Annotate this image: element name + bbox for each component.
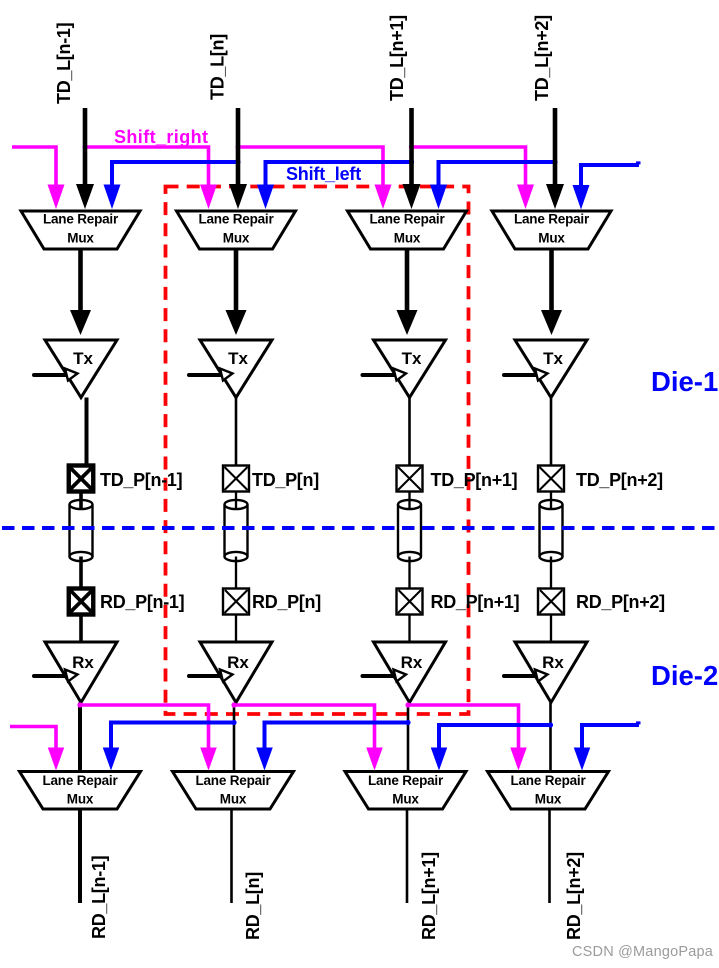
op-amp Rx2 receiver — [200, 642, 272, 703]
svg-text:Tx: Tx — [543, 349, 563, 368]
op-amp Tx1 driver — [45, 340, 117, 398]
svg-text:Lane Repair: Lane Repair — [195, 773, 271, 788]
op-amp Tx2 driver — [200, 340, 272, 398]
junction bottom shift_right tap col3 — [405, 702, 410, 707]
lane repair mux U2A (top) — [177, 211, 296, 249]
junction col3 shift_left tap — [409, 159, 414, 164]
junction bottom shift_left tap col4 — [548, 722, 553, 727]
svg-text:Die-2: Die-2 — [651, 660, 718, 691]
wire channel to RD pad col2 — [235, 557, 237, 591]
junction col2 shift_right tap — [235, 144, 240, 149]
wire channel to RD pad col4 — [550, 557, 552, 591]
svg-text:RD_L[n+2]: RD_L[n+2] — [564, 852, 584, 940]
wire Tx1 output to pad — [85, 398, 89, 468]
svg-text:Mux: Mux — [392, 792, 419, 807]
svg-text:RD_P[n-1]: RD_P[n-1] — [100, 592, 184, 612]
junction bottom shift_right tap col1 — [77, 702, 82, 707]
pad bump RD_P col3 (box-X) — [397, 589, 423, 615]
wire Shift_right feed into mux1 (from left edge) — [12, 147, 56, 188]
wire Tx3 enable input — [363, 373, 395, 377]
wire Shift_left tap col4 to mux3 — [439, 162, 556, 188]
svg-text:Mux: Mux — [394, 231, 421, 246]
wire mux U3A output arrow — [405, 249, 410, 312]
op-amp Rx3 receiver — [374, 642, 446, 703]
svg-text:Mux: Mux — [220, 792, 247, 807]
lane repair mux U2B (bottom) — [173, 772, 294, 810]
svg-text:Rx: Rx — [542, 653, 564, 672]
svg-text:Tx: Tx — [228, 349, 248, 368]
wire TD_L[1] vertical input — [83, 108, 88, 186]
pad bump TD_P col3 (box-X) — [397, 466, 423, 492]
svg-text:RD_L[n+1]: RD_L[n+1] — [419, 852, 439, 940]
wire TD_L[4] vertical input — [553, 108, 558, 186]
svg-text:RD_L[n-1]: RD_L[n-1] — [89, 856, 109, 939]
wire bottom Shift_right tap col1 to mux2 — [80, 705, 209, 750]
op-amp Rx4 receiver — [515, 642, 587, 703]
svg-text:Mux: Mux — [538, 231, 565, 246]
op-amp Tx4 driver — [515, 340, 587, 398]
svg-text:Rx: Rx — [72, 653, 94, 672]
svg-text:TD_P[n]: TD_P[n] — [252, 470, 319, 490]
junction bottom shift_left tap col3 — [405, 720, 410, 725]
channel bump/pillar col1 (cylinder) — [70, 500, 93, 561]
wire RD_L[2] output — [230, 809, 233, 903]
wire bottom Shift_left feed stub into mux4 — [582, 725, 639, 750]
svg-text:Rx: Rx — [401, 653, 423, 672]
wire Rx3 output to bottom mux — [407, 703, 410, 773]
svg-text:RD_L[n]: RD_L[n] — [243, 872, 263, 940]
junction bottom shift_left tap col2 — [231, 720, 236, 725]
svg-text:Mux: Mux — [67, 231, 94, 246]
svg-text:TD_L[n]: TD_L[n] — [208, 34, 228, 100]
wire Tx2 output to pad — [235, 398, 238, 468]
wire Rx1 enable input — [34, 674, 66, 678]
wire Rx4 enable input — [504, 674, 536, 678]
lane repair mux U4A (top) — [492, 211, 611, 249]
lane repair mux U3A (top) — [348, 211, 467, 249]
lane repair mux U1A (top) — [21, 211, 140, 249]
wire Rx1 output to bottom mux — [78, 703, 82, 773]
wire Rx2 output to bottom mux — [233, 703, 236, 773]
svg-text:Die-1: Die-1 — [651, 366, 718, 397]
wire Shift_right tap col1 to mux2 — [85, 147, 209, 188]
op-amp Tx3 driver — [374, 340, 446, 398]
wire RD_L[3] output — [406, 809, 409, 903]
svg-text:TD_L[n+2]: TD_L[n+2] — [532, 15, 552, 101]
wire RD pad to Rx col2 — [235, 615, 237, 646]
svg-text:Lane Repair: Lane Repair — [198, 212, 274, 227]
channel bump/pillar col3 (cylinder) — [398, 500, 421, 561]
wire RD_L[1] output — [78, 809, 82, 903]
svg-text:Lane Repair: Lane Repair — [368, 773, 444, 788]
wire Shift_left tap col3 to mux2 — [266, 162, 412, 188]
wire bottom Shift_right tap col3 to mux4 — [408, 705, 519, 750]
svg-text:Lane Repair: Lane Repair — [43, 212, 119, 227]
pad bump TD_P col4 (box-X) — [538, 466, 564, 492]
wire bottom Shift_right feed into mux1 (from left edge) — [10, 727, 56, 751]
svg-text:RD_P[n+1]: RD_P[n+1] — [431, 592, 520, 612]
svg-text:Shift_right: Shift_right — [114, 127, 208, 147]
wire bottom Shift_left tap col3 to mux2 — [265, 723, 409, 751]
junction col3 shift_right tap — [409, 144, 414, 149]
svg-text:Shift_left: Shift_left — [286, 164, 361, 184]
pad bump RD_P col1 (box-X) — [69, 589, 94, 615]
svg-text:TD_P[n+1]: TD_P[n+1] — [431, 470, 518, 490]
repair path highlight (red dashed rectangle) — [166, 187, 469, 715]
wire RD pad to Rx col3 — [408, 615, 410, 646]
svg-text:Lane Repair: Lane Repair — [369, 212, 445, 227]
wire pad to channel col3 — [408, 491, 410, 509]
wire Tx3 output to pad — [408, 398, 411, 468]
pad bump TD_P col2 (box-X) — [223, 466, 249, 492]
svg-text:Tx: Tx — [73, 349, 93, 368]
lane repair mux U1B (bottom) — [20, 772, 141, 810]
svg-text:TD_P[n+2]: TD_P[n+2] — [576, 470, 663, 490]
wire mux U2A output arrow — [234, 249, 239, 312]
svg-text:Lane Repair: Lane Repair — [42, 773, 118, 788]
junction bottom shift_right tap col2 — [231, 702, 236, 707]
pad bump RD_P col4 (box-X) — [538, 589, 564, 615]
wire RD_L[4] output — [548, 809, 551, 903]
wire channel to RD pad col1 — [79, 557, 83, 591]
svg-text:TD_P[n-1]: TD_P[n-1] — [100, 470, 182, 490]
wire pad to channel col2 — [235, 491, 237, 509]
svg-text:TD_L[n+1]: TD_L[n+1] — [387, 15, 407, 101]
svg-text:TD_L[n-1]: TD_L[n-1] — [54, 23, 74, 104]
wire Tx2 enable input — [189, 373, 221, 377]
svg-text:RD_P[n]: RD_P[n] — [252, 592, 321, 612]
wire mux U4A output arrow — [549, 249, 554, 312]
junction col4 shift_left tap — [552, 159, 557, 164]
channel bump/pillar col4 (cylinder) — [540, 500, 563, 561]
wire Shift_left tap col2 to mux1 — [112, 162, 238, 188]
wire RD pad to Rx col4 — [550, 615, 552, 646]
die boundary (blue dashed line) — [2, 526, 717, 530]
wire Shift_left feed stub into mux4 — [581, 165, 639, 188]
lane repair mux U3B (bottom) — [345, 772, 466, 810]
channel bump/pillar col2 (cylinder) — [225, 500, 248, 561]
wire TD_L[3] vertical input — [409, 108, 414, 186]
svg-text:RD_P[n+2]: RD_P[n+2] — [576, 592, 665, 612]
wire Tx4 output to pad — [550, 398, 553, 468]
wire bottom Shift_right tap col2 to mux3 — [234, 705, 375, 750]
wire Rx3 enable input — [363, 674, 395, 678]
wire pad to channel col4 — [550, 491, 552, 509]
svg-text:Mux: Mux — [535, 792, 562, 807]
wire bottom Shift_left tap col4 to mux3 — [439, 725, 551, 750]
svg-text:Mux: Mux — [67, 792, 94, 807]
wire mux U1A output arrow — [78, 249, 83, 312]
wire bottom Shift_left tap col2 to mux1 — [111, 723, 234, 751]
svg-text:Lane Repair: Lane Repair — [514, 212, 590, 227]
wire Rx2 enable input — [189, 674, 221, 678]
wire Tx4 enable input — [504, 373, 536, 377]
wire Tx1 enable input — [34, 373, 66, 377]
svg-text:Rx: Rx — [227, 653, 249, 672]
pad bump TD_P col1 (box-X) — [69, 466, 94, 492]
junction col1 shift_right tap — [82, 144, 87, 149]
op-amp Rx1 receiver — [45, 642, 117, 703]
wire pad to channel col1 — [79, 491, 83, 509]
svg-text:Mux: Mux — [223, 231, 250, 246]
wire TD_L[2] vertical input — [236, 108, 241, 186]
svg-text:CSDN @MangoPapa: CSDN @MangoPapa — [572, 944, 714, 960]
wire Shift_right tap col2 to mux3 — [238, 147, 383, 188]
wire channel to RD pad col3 — [408, 557, 410, 591]
lane repair mux U4B (bottom) — [488, 772, 609, 810]
svg-text:Tx: Tx — [402, 349, 422, 368]
wire RD pad to Rx col1 — [79, 615, 83, 646]
svg-text:Lane Repair: Lane Repair — [510, 773, 586, 788]
wire Rx4 output to bottom mux — [549, 703, 552, 773]
pad bump RD_P col2 (box-X) — [223, 589, 249, 615]
wire Shift_right tap col3 to mux4 — [412, 147, 526, 188]
junction col2 shift_left tap — [235, 159, 240, 164]
